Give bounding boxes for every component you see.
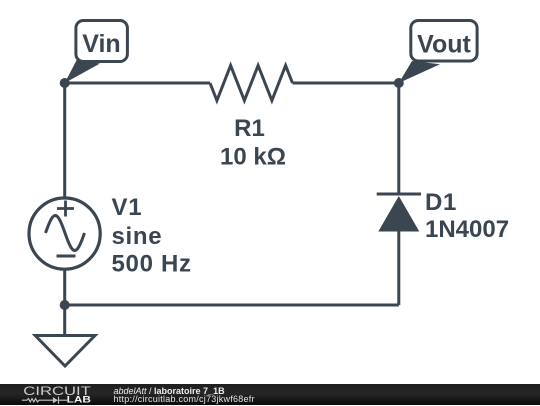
node Vout bbox=[394, 78, 404, 88]
diode D1 bbox=[377, 193, 421, 196]
flag Vout bbox=[399, 61, 440, 83]
svg-text:500 Hz: 500 Hz bbox=[112, 251, 192, 278]
wire bottom horizontal bbox=[65, 304, 399, 307]
svg-text:10 kΩ: 10 kΩ bbox=[220, 144, 286, 171]
svg-text:sine: sine bbox=[112, 223, 163, 250]
CircuitLab logo bbox=[0, 384, 110, 406]
svg-text:V1: V1 bbox=[112, 194, 143, 221]
voltage source V1 bbox=[29, 198, 100, 269]
wire top-right horizontal bbox=[293, 82, 399, 85]
svg-text:Vin: Vin bbox=[82, 30, 120, 58]
svg-text:1N4007: 1N4007 bbox=[425, 216, 509, 243]
svg-text:D1: D1 bbox=[425, 189, 457, 216]
wire top-left horizontal bbox=[65, 82, 210, 85]
svg-text:R1: R1 bbox=[234, 115, 265, 142]
flag Vin bbox=[65, 60, 100, 83]
wire right vertical lower bbox=[397, 231, 400, 305]
node bottom junction bbox=[60, 300, 70, 310]
footer bar bbox=[0, 384, 540, 405]
wire below source bbox=[63, 270, 66, 306]
node Vin bbox=[60, 78, 70, 88]
wire left vertical bbox=[63, 83, 66, 198]
ground bbox=[63, 305, 66, 336]
wire right vertical upper bbox=[397, 83, 400, 194]
resistor R1 bbox=[210, 66, 293, 101]
svg-text:LAB: LAB bbox=[67, 395, 92, 405]
svg-text:Vout: Vout bbox=[417, 30, 471, 58]
